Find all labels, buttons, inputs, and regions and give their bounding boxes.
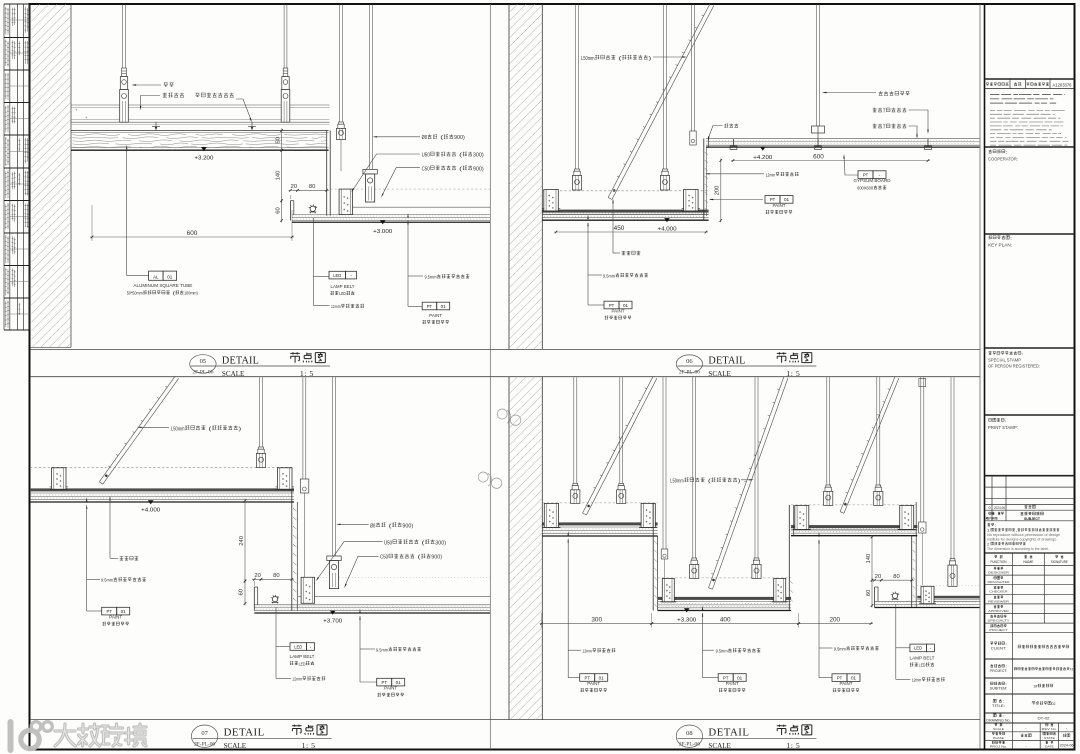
- svg-text:PT: PT: [585, 675, 591, 680]
- svg-text:(: (: [415, 555, 421, 561]
- detail 05: hanger assembly 1 (吊件): [122, 68, 127, 77]
- svg-text:200: 200: [715, 186, 721, 196]
- detail 08: bay3 rod B: [876, 377, 878, 485]
- detail 06: edge hanger rod C: [691, 5, 693, 132]
- svg-text:01: 01: [851, 675, 857, 680]
- detail 08: bay3 rod A: [826, 377, 828, 485]
- detail 06: 600 dim: [731, 160, 930, 162]
- detail 05: label 12mm阻燃板基层: [314, 305, 330, 307]
- svg-text:9.5mm: 9.5mm: [101, 578, 113, 583]
- svg-text:01: 01: [623, 303, 629, 308]
- svg-text:80: 80: [273, 573, 279, 579]
- detail 05: elevation +3.200: [201, 147, 207, 151]
- detail 06: 200 dim: [720, 159, 722, 223]
- detail 07: dims 20/80: [252, 578, 263, 580]
- svg-text:1: 5: 1: 5: [300, 369, 314, 378]
- svg-text:SCALE: SCALE: [224, 741, 247, 750]
- svg-text:F2: F2: [1070, 668, 1074, 672]
- svg-text:ALUMINUM SQUARE TUBE: ALUMINUM SQUARE TUBE: [133, 283, 192, 288]
- detail 08: LED symbol: [892, 593, 897, 598]
- svg-text:PT: PT: [382, 680, 388, 685]
- svg-text:+3.200: +3.200: [194, 156, 213, 162]
- detail 08: bottom dims 300/400/200: [541, 613, 543, 628]
- detail 07: elevation +4.000: [148, 500, 154, 504]
- svg-text:APPROVER: APPROVER: [988, 609, 1009, 613]
- svg-text:300): 300): [435, 540, 446, 546]
- svg-text:LED: LED: [299, 661, 306, 666]
- detail 06: channel end bracket left: [544, 190, 559, 212]
- detail 08: bay4 rod: [950, 377, 952, 559]
- detail 06: elevation +4.000: [664, 218, 670, 222]
- svg-text:PT: PT: [427, 304, 433, 309]
- svg-text:SIGNATURE: SIGNATURE: [1051, 560, 1068, 564]
- svg-text:C50: C50: [422, 166, 430, 172]
- detail 07: rod for lower ceiling: [332, 377, 334, 556]
- svg-text:DETAIL: DETAIL: [708, 355, 745, 366]
- svg-text:SPECIAL STAMP: SPECIAL STAMP: [988, 358, 1021, 363]
- detail 08: bay3 bracket left: [795, 505, 809, 529]
- svg-text:OF PERSON REGISTERED:: OF PERSON REGISTERED:: [988, 364, 1040, 369]
- svg-text::: :: [1005, 418, 1007, 423]
- svg-text:DRAUGHTER: DRAUGHTER: [988, 580, 1010, 584]
- svg-text:): ): [738, 478, 741, 484]
- svg-text:01: 01: [784, 197, 790, 202]
- svg-text:(: (: [616, 56, 622, 62]
- svg-text:01: 01: [167, 274, 173, 279]
- svg-text:140: 140: [866, 554, 872, 564]
- svg-text:PAINT: PAINT: [109, 615, 122, 620]
- detail 05: 50 band height dim: [281, 129, 283, 153]
- svg-text:2.: 2.: [987, 542, 991, 546]
- svg-text:+3.000: +3.000: [373, 229, 392, 235]
- detail 08: bay2 rod B: [754, 377, 756, 558]
- detail 08: bay3 angle brace: [844, 378, 899, 513]
- detail 06: central wall hatch (top half): [508, 4, 510, 350]
- detail 05: label 铝方通专用龙骨: [195, 93, 199, 97]
- svg-text:50: 50: [275, 137, 281, 143]
- detail 05: aluminium-tube carrier clips: [155, 122, 157, 126]
- svg-text:The dimension is according to: The dimension is according to the label.: [987, 547, 1049, 551]
- detail 07: U50 furring: [301, 577, 315, 603]
- svg-text:FUNCTION: FUNCTION: [991, 560, 1008, 564]
- detail 05: right lower ceiling layers: [330, 188, 490, 190]
- detail 08: PT-01 tag bay2: [703, 677, 719, 679]
- detail 08: bay2 rod A: [692, 377, 694, 558]
- svg-text:80: 80: [893, 574, 899, 580]
- detail 08: bay2 band +3.300: [658, 577, 791, 579]
- detail 06: label 边龙骨: [724, 124, 728, 128]
- svg-text:140: 140: [275, 171, 281, 181]
- detail 06: lower ceiling band: [542, 190, 708, 192]
- svg-text:DESIGNER: DESIGNER: [988, 571, 1009, 575]
- detail 06: hanger clip A: [575, 169, 580, 171]
- bottom title strip rule: [30, 719, 980, 721]
- detail 07: dims 240/60: [244, 499, 246, 583]
- detail 07: hanger rod: [259, 377, 261, 448]
- detail 07: lower ceiling +3.700: [304, 576, 490, 578]
- svg-text:08: 08: [686, 730, 693, 737]
- svg-text:100mm): 100mm): [184, 291, 198, 296]
- svg-text:LED: LED: [333, 273, 342, 278]
- svg-text:PT: PT: [837, 675, 843, 680]
- detail 08: bay1 bracket right: [641, 503, 655, 527]
- mid title strip rules: [30, 349, 980, 351]
- detail 08: cove lamp lip: [874, 587, 876, 608]
- detail 08: bay2 bracket left: [662, 578, 674, 601]
- detail 07: step hanger rod: [302, 377, 304, 479]
- svg-text:REV DATE: REV DATE: [986, 517, 998, 521]
- detail 08: bay4 bracket: [921, 586, 934, 604]
- detail 05: hanger assembly 2: [283, 68, 288, 77]
- svg-text:12mm: 12mm: [292, 677, 302, 682]
- svg-text::: :: [1010, 236, 1012, 241]
- detail 08: step 1: [652, 503, 654, 611]
- svg-text:LAMP BELT: LAMP BELT: [290, 654, 315, 659]
- svg-text:60: 60: [239, 589, 245, 595]
- svg-text:PT: PT: [723, 675, 729, 680]
- detail 08: bay3 bracket right: [900, 505, 914, 529]
- svg-text:20: 20: [875, 574, 881, 580]
- svg-text:01: 01: [737, 675, 743, 680]
- svg-text:DT-02: DT-02: [1038, 716, 1051, 721]
- detail 06: label 钢钉固定: [612, 199, 613, 204]
- title strip detail 07: [191, 725, 217, 747]
- svg-text:PROJ No.: PROJ No.: [990, 745, 1008, 749]
- detail 08: bay1 angle brace: [586, 378, 657, 515]
- svg-text::: :: [995, 524, 997, 528]
- detail 06: label 专用配套吊件: [879, 91, 883, 95]
- detail 07: PT-01 tag left: [87, 610, 102, 612]
- detail 07: step edge: [291, 490, 293, 611]
- detail 08: bay3 band +3.700: [791, 504, 917, 506]
- detail 08: PT-01 tag bay1: [568, 677, 580, 679]
- detail 08: bay1 rod B: [619, 377, 621, 484]
- svg-text:01: 01: [396, 680, 402, 685]
- title block: [985, 78, 1075, 80]
- detail 06: upper T-grid ceiling band: [706, 137, 980, 139]
- detail 05: elevation +3.000: [380, 220, 386, 224]
- svg-text::: :: [1006, 150, 1008, 155]
- detail 08: bay2 bracket right: [774, 578, 786, 601]
- svg-text:L50mm: L50mm: [581, 56, 595, 62]
- detail 07: angle brace: [103, 378, 179, 484]
- svg-text::: :: [1002, 714, 1004, 718]
- svg-text:REVIEWER: REVIEWER: [988, 599, 1009, 603]
- detail 06: step edge / edge runner: [703, 138, 705, 220]
- svg-text:2024-06: 2024-06: [1060, 744, 1074, 748]
- svg-text::: :: [1005, 642, 1007, 646]
- detail 05: wood-grain aluminium square tube band: [71, 130, 329, 132]
- svg-text:Ø8: Ø8: [370, 523, 375, 529]
- svg-text:PT: PT: [770, 197, 776, 202]
- svg-text:50*50mm: 50*50mm: [127, 291, 143, 296]
- detail 05: AL-01 tag leader: [126, 145, 127, 150]
- svg-text:06: 06: [686, 358, 693, 365]
- svg-text:9.5mm: 9.5mm: [603, 273, 615, 278]
- svg-text:PAINT: PAINT: [429, 313, 442, 318]
- svg-text:80: 80: [309, 184, 315, 190]
- svg-text::: :: [1022, 351, 1024, 356]
- detail 06: hanger rod A: [575, 5, 577, 171]
- detail 05: band right step edge: [326, 131, 328, 216]
- svg-text:institute for designs copyrigh: institute for designs copyrights of draw…: [987, 537, 1057, 541]
- svg-text:60: 60: [866, 590, 872, 596]
- watermark text 大数跨境: [55, 724, 146, 746]
- detail 08: bay1 bracket left: [544, 503, 558, 527]
- svg-text:TITLE:: TITLE:: [992, 704, 1005, 708]
- svg-text:LED: LED: [339, 291, 346, 296]
- svg-text::: :: [1002, 700, 1004, 704]
- svg-text:KEY PLAN:: KEY PLAN:: [988, 243, 1012, 248]
- svg-text:LAMP BELT: LAMP BELT: [910, 655, 935, 660]
- detail 08: bay2 angle brace: [713, 378, 789, 589]
- detail 05: AL-01 tag: [149, 271, 164, 280]
- svg-text:PT: PT: [107, 609, 113, 614]
- svg-text:01: 01: [441, 304, 447, 309]
- svg-text:9.5mm: 9.5mm: [376, 647, 388, 652]
- break mark lower: [478, 472, 502, 488]
- detail 07: cove lamp lip: [253, 587, 255, 611]
- detail 06: channel end bracket right: [684, 190, 699, 212]
- watermark logo: [11, 722, 53, 750]
- svg-text:LED: LED: [294, 644, 303, 649]
- detail 05: hanger rod 3 with clip: [339, 5, 341, 123]
- svg-text:(: (: [438, 135, 444, 141]
- svg-text:PHASE: PHASE: [993, 736, 1004, 740]
- svg-text:AL: AL: [153, 274, 159, 279]
- svg-text:PAINT: PAINT: [612, 309, 625, 314]
- svg-text:01: 01: [121, 609, 127, 614]
- detail 06: label 烤漆T型主龙骨: [873, 108, 877, 112]
- svg-text:+4.000: +4.000: [658, 227, 677, 233]
- detail 05: hanger rod 1: [122, 5, 124, 69]
- detail 07: hanger clip: [259, 447, 264, 449]
- svg-text:DETAIL: DETAIL: [224, 727, 265, 739]
- svg-text:1: 5: 1: 5: [786, 369, 800, 378]
- svg-text:PROJECT: PROJECT: [989, 628, 1008, 632]
- detail 05: hanger rod 2: [283, 5, 285, 69]
- svg-text:+3.300: +3.300: [677, 617, 696, 623]
- svg-text:): ): [649, 56, 652, 62]
- svg-text:1.: 1.: [987, 529, 991, 533]
- detail 08: step1 edge hanger rod: [662, 377, 664, 549]
- title strip detail 06: [676, 355, 702, 373]
- detail 08: dims 140/60: [871, 535, 873, 582]
- svg-text:(: (: [206, 426, 212, 432]
- svg-text:12mm: 12mm: [582, 649, 592, 654]
- detail 07: PT-01 tag right: [360, 681, 377, 683]
- svg-text::: :: [1005, 682, 1007, 686]
- detail 05: dims 20/80: [289, 195, 291, 199]
- svg-text:L50mm: L50mm: [171, 426, 185, 432]
- left revision info strip: [3, 4, 5, 330]
- detail 06: angle brace L50: [612, 6, 714, 200]
- detail 08: bay1 band +3.700: [542, 502, 657, 504]
- detail 08: label 9.5mm石膏板 bay3: [818, 532, 819, 537]
- svg-text:SCALE: SCALE: [993, 727, 1004, 731]
- svg-text:900): 900): [402, 523, 413, 529]
- svg-text:DETAIL: DETAIL: [708, 727, 749, 739]
- detail 05: C50 main runner: [363, 169, 377, 174]
- svg-text:300: 300: [591, 616, 602, 623]
- svg-text:9.5mm: 9.5mm: [425, 275, 437, 280]
- svg-text:PRINT STAMP:: PRINT STAMP:: [988, 425, 1018, 430]
- detail 07: label 12mm阻燃板基层: [276, 677, 291, 679]
- svg-text:600: 600: [187, 230, 198, 237]
- svg-text:NAME: NAME: [1023, 560, 1033, 564]
- svg-text:CHECKER: CHECKER: [989, 590, 1007, 594]
- svg-text:LED: LED: [914, 646, 923, 651]
- svg-text:9.5mm: 9.5mm: [834, 646, 846, 651]
- svg-text:900): 900): [454, 135, 465, 141]
- svg-text:600: 600: [813, 153, 824, 160]
- svg-text:PROJECT:: PROJECT:: [990, 669, 1008, 673]
- svg-text:2F-PL-06: 2F-PL-06: [194, 743, 216, 748]
- svg-text:400: 400: [720, 616, 731, 623]
- half divider line: [489, 4, 491, 750]
- svg-text:DATE: DATE: [1045, 745, 1054, 749]
- detail 07: label 9.5mm石膏板 right: [359, 609, 360, 614]
- detail 06: elevation +4.200: [760, 147, 766, 151]
- detail 05: label 吊件: [164, 83, 168, 87]
- detail 08: label 12mm阻燃板基层 bay4: [896, 678, 911, 680]
- detail 08: label 9.5mm石膏板 bay2: [702, 606, 703, 611]
- detail 07: LED symbol: [272, 596, 277, 601]
- svg-text:20: 20: [291, 184, 297, 190]
- detail 07: upper ceiling band +4.000: [30, 466, 294, 468]
- svg-text:(: (: [419, 540, 425, 546]
- svg-text:(: (: [386, 523, 392, 529]
- svg-text:A1203376: A1203376: [1053, 83, 1073, 88]
- detail 06: 450 dim: [554, 231, 708, 233]
- detail 08: central wall hatch (bottom half): [508, 377, 510, 720]
- svg-text:600X600: 600X600: [857, 186, 873, 191]
- detail 08: LED tag bay4: [895, 604, 897, 679]
- svg-text:900): 900): [431, 555, 442, 561]
- svg-text:): ): [239, 426, 242, 432]
- detail 07: label 钢钉固定: [109, 496, 110, 501]
- detail 06: label 烤漆T型次龙骨: [873, 124, 877, 128]
- svg-text:SCALE: SCALE: [708, 369, 731, 378]
- detail 05: left wall section hatch: [70, 4, 72, 347]
- svg-text:+3.700: +3.700: [323, 619, 342, 625]
- svg-text:(: (: [457, 166, 463, 172]
- svg-text:U50: U50: [422, 153, 430, 159]
- title strip detail 05: [190, 355, 216, 373]
- detail 05: U50 cross furring: [339, 189, 353, 215]
- detail 06: hanger rod B: [663, 5, 665, 171]
- detail 06: label 9.5mm石膏板 left: [587, 215, 588, 220]
- svg-text:20: 20: [254, 573, 260, 579]
- svg-text:240: 240: [239, 536, 245, 546]
- svg-text:U50: U50: [384, 540, 392, 546]
- detail 05: 600 dim: [91, 205, 93, 241]
- detail 06: GYPSUM BOARD tag: [844, 156, 858, 175]
- svg-text:0: 0: [989, 506, 991, 510]
- svg-text:(: (: [457, 153, 463, 159]
- svg-text:2F-PL-06: 2F-PL-06: [679, 743, 701, 748]
- svg-text:L50mm: L50mm: [670, 478, 684, 484]
- svg-text:PT: PT: [609, 303, 615, 308]
- svg-text:SUBITEM:: SUBITEM:: [990, 687, 1008, 691]
- svg-text:450: 450: [614, 225, 625, 232]
- svg-text:+4.000: +4.000: [141, 507, 160, 513]
- detail 06: PT-01 tag right: [710, 199, 763, 201]
- svg-text::: :: [1005, 665, 1007, 669]
- svg-text:60: 60: [275, 207, 281, 213]
- svg-text:(: (: [705, 478, 711, 484]
- svg-text:PAINT: PAINT: [726, 681, 739, 686]
- detail 07: end bracket left: [52, 468, 67, 490]
- title block double border: [979, 4, 981, 750]
- detail 07: end bracket right: [278, 468, 293, 490]
- svg-text:SCALE: SCALE: [708, 741, 731, 750]
- svg-text:SCALE: SCALE: [222, 369, 245, 378]
- svg-text:PT: PT: [863, 172, 869, 177]
- detail 08: step 2: [788, 505, 790, 611]
- svg-text:200: 200: [829, 616, 840, 623]
- detail 05: LED tag: [313, 218, 315, 306]
- svg-text:REV No.: REV No.: [1042, 727, 1058, 731]
- svg-text:SUBJECT: SUBJECT: [1024, 517, 1041, 521]
- detail 05: carrying channel 承载龙骨: [71, 104, 330, 106]
- detail 06: PT-01 tag left: [588, 304, 604, 306]
- svg-text:12mm: 12mm: [912, 678, 922, 683]
- svg-text:Ø8: Ø8: [422, 135, 427, 141]
- detail 08: PT-01 tag bay3: [819, 677, 832, 679]
- detail 08: label 12mm阻燃板基层 bay1: [568, 531, 569, 536]
- svg-text:9.5mm: 9.5mm: [716, 649, 728, 654]
- svg-text:900): 900): [473, 166, 484, 172]
- detail 05: dims 140/60: [281, 148, 283, 203]
- svg-text:1: 5: 1: 5: [786, 741, 800, 750]
- svg-text:SPECIALTY: SPECIALTY: [988, 619, 1010, 623]
- detail 07: C50 runner: [327, 556, 341, 561]
- svg-text:CLIENT:: CLIENT:: [991, 647, 1006, 651]
- svg-text:PAINT: PAINT: [840, 681, 853, 686]
- svg-text:05: 05: [200, 358, 207, 365]
- svg-text:,: ,: [1015, 529, 1017, 533]
- detail 08: bay4 band (cove bay): [917, 585, 979, 587]
- detail 08: dims 20/80: [873, 579, 884, 581]
- detail 07: LED tag: [275, 607, 277, 678]
- svg-text:DETAIL: DETAIL: [222, 355, 259, 366]
- detail 06: T-bar sections: [733, 139, 735, 146]
- detail 05: label 9.5mm石膏板: [407, 213, 408, 218]
- detail 07: elevation +3.700: [330, 611, 336, 615]
- title strip detail 08: [676, 725, 702, 747]
- svg-text:07: 07: [201, 730, 208, 737]
- svg-text:PAINT: PAINT: [384, 686, 397, 691]
- break mark upper: [497, 409, 521, 425]
- svg-text:2F-PL-06: 2F-PL-06: [192, 370, 214, 375]
- svg-text:COOPERATOR:: COOPERATOR:: [988, 157, 1018, 162]
- svg-text:PAINT: PAINT: [587, 681, 600, 686]
- svg-text:PAINT: PAINT: [773, 203, 786, 208]
- detail 08: bay1 rod A: [573, 377, 575, 484]
- svg-text:LED: LED: [919, 663, 926, 668]
- svg-text:2024-06: 2024-06: [994, 506, 1005, 510]
- detail 08: step 3: [911, 536, 913, 608]
- svg-text:GYPSUM BOARD: GYPSUM BOARD: [854, 178, 891, 183]
- svg-text:12mm: 12mm: [766, 172, 776, 177]
- detail 05: label 承载龙骨: [163, 93, 167, 98]
- svg-text:300): 300): [473, 153, 484, 159]
- svg-text:STATE: STATE: [1044, 736, 1055, 740]
- detail 05: PT-01 tag: [408, 305, 422, 307]
- detail 06: hanger rod D (T-grid): [816, 5, 818, 127]
- svg-text:1: 5: 1: 5: [302, 741, 316, 750]
